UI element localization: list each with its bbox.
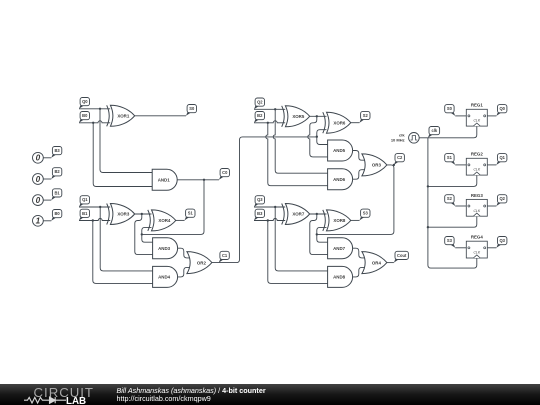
wire S1 to REG2 D pin [455, 164, 466, 166]
svg-text:AND5: AND5 [333, 148, 346, 153]
node flag S1 (sum bit 1) [185, 209, 196, 220]
svg-text:S3: S3 [447, 238, 453, 243]
wire source to B1 flag [43, 199, 51, 201]
svg-text:AND4: AND4 [158, 275, 171, 280]
and gate AND5 [328, 140, 353, 161]
wire XOR5 output down to AND5 bottom input (hop over C1) [308, 116, 328, 157]
wire clk branch to REG2 [428, 175, 477, 186]
wire XOR7 output to XOR8 top input [310, 213, 327, 215]
svg-text:Q3: Q3 [257, 197, 263, 202]
node flag Cout (carry out) [394, 251, 409, 262]
svg-text:clk: clk [431, 128, 437, 133]
junction on B3 wire [267, 219, 269, 221]
digital input source 0 for B3 [33, 152, 44, 163]
svg-text:REG1: REG1 [471, 103, 484, 108]
junction on B2 wire [267, 122, 269, 124]
junction at XOR7 output [316, 213, 318, 215]
svg-text:OR2: OR2 [197, 260, 207, 265]
junction at XOR5 output [316, 115, 318, 117]
wire AND5 output to OR3 top input [353, 151, 366, 161]
svg-text:C1: C1 [222, 253, 228, 258]
wire clk to REG1 clock / down REG1 [428, 126, 477, 138]
svg-text:B0: B0 [82, 113, 88, 118]
svg-text:REG4: REG4 [471, 235, 484, 240]
wire Q1 to XOR3 top input [79, 206, 110, 208]
and gate AND4 [153, 266, 178, 287]
svg-text:AND8: AND8 [333, 275, 346, 280]
junction at XOR3 output [141, 213, 143, 215]
digital input source 0 for B1 [33, 195, 44, 206]
wire B3 to XOR7 bottom input (hop over Q3 branch) [254, 219, 285, 221]
svg-text:XOR1: XOR1 [117, 114, 130, 119]
wire S2 to REG3 D pin [455, 205, 466, 207]
junction on B1 wire [92, 219, 94, 221]
wire B3 branch down to AND8 bottom input [268, 221, 328, 284]
wire OR2 output (C1) up to bit-2 carry-in [212, 137, 317, 263]
svg-text:B1: B1 [54, 190, 60, 195]
svg-text:B1: B1 [82, 211, 88, 216]
wire Q3 to XOR7 top input [254, 206, 285, 208]
node flag clk [428, 127, 440, 138]
svg-text:10 MHz: 10 MHz [391, 137, 405, 142]
svg-text:Q1: Q1 [499, 155, 505, 160]
svg-text:XOR6: XOR6 [333, 120, 346, 125]
wire OR4 output to Cout [387, 262, 394, 264]
and gate AND1 [152, 169, 177, 190]
wire XOR6 output to S2 [351, 122, 360, 124]
node flag S3 (sum bit 3) [360, 209, 371, 220]
node flag C0 (carry out of bit 0) [219, 169, 230, 180]
svg-text:S2: S2 [363, 113, 369, 118]
svg-text:AND7: AND7 [333, 246, 346, 251]
svg-text:OR4: OR4 [372, 260, 382, 265]
xor gate XOR7 [282, 204, 310, 225]
wire XOR5 output to XOR6 top input [310, 115, 327, 117]
xor gate XOR4 [148, 210, 176, 231]
junction carry-in of bit 3 [316, 233, 318, 235]
wire carry-in down to AND5 top input [317, 137, 328, 145]
node flag S0 (XOR1 output) [186, 105, 197, 116]
wire source to B0 flag [43, 220, 51, 222]
footer caption: author / title [117, 387, 266, 404]
node flag Q1 (Q output of REG2) [496, 154, 507, 165]
wire C0 to bit-1 carry-in junction [142, 180, 204, 235]
node flag C2 (carry out of bit 2) [394, 154, 405, 165]
svg-text:1: 1 [36, 217, 41, 226]
svg-text:Q1: Q1 [82, 197, 88, 202]
wire clk branch to REG3 [428, 216, 477, 227]
and gate AND3 [153, 238, 178, 259]
svg-text:S0: S0 [447, 106, 453, 111]
wire XOR4 output to S1 [176, 219, 185, 221]
wire B1 to XOR3 bottom input (hop over Q1 branch) [79, 219, 110, 221]
wire AND4 output to OR2 bottom input [178, 267, 191, 277]
xor gate XOR5 [282, 106, 310, 127]
wire carry-in down to AND3 top input [142, 234, 153, 242]
junction clk to REG3 [427, 226, 429, 228]
node flag Q0 (XOR1 input) [79, 98, 90, 109]
wire B0 branch down to AND1 bottom input [93, 123, 152, 187]
xor gate XOR8 [323, 210, 351, 231]
node flag S0 (D input of REG1) [445, 105, 456, 116]
and gate AND8 [328, 266, 353, 287]
node flag C1 (carry out of bit 1) [219, 251, 229, 262]
wire B0 to XOR1 bottom input (hop over Q0 branch) [79, 121, 110, 123]
D flip-flop REG4 [466, 235, 487, 258]
node flag B3 (input value) [51, 147, 62, 158]
wire source to B2 flag [43, 178, 51, 180]
svg-text:0: 0 [36, 175, 41, 184]
svg-text:XOR3: XOR3 [117, 212, 130, 217]
svg-text:S1: S1 [188, 211, 194, 216]
svg-text:OR3: OR3 [372, 163, 382, 168]
svg-text:Q3: Q3 [499, 238, 505, 243]
svg-text:CLK: CLK [473, 168, 480, 172]
or gate OR2 [187, 252, 212, 274]
node flag Q1 (XOR3 input) [79, 196, 90, 207]
node flag B0 (input value) [51, 210, 62, 221]
node flag B3 (XOR7 input) [254, 209, 265, 220]
svg-text:S1: S1 [447, 155, 453, 160]
junction on C0 wire [203, 179, 205, 181]
wire S0 to REG1 D pin [455, 115, 466, 117]
svg-text:AND6: AND6 [333, 177, 346, 182]
wire AND1 output to C0 [177, 179, 219, 181]
svg-text:CLK: CLK [473, 209, 480, 213]
wire Q0 to XOR1 top input [79, 108, 110, 110]
svg-text:S2: S2 [447, 196, 453, 201]
wire Q1 branch down to AND4 top input [100, 207, 153, 271]
svg-text:Q0: Q0 [82, 99, 88, 104]
node flag B2 (XOR5 input) [254, 112, 265, 123]
wire Q0 branch down to AND1 top input [100, 109, 152, 173]
wire carry-in down to AND7 top input [317, 234, 328, 242]
resistor symbol in logo [24, 397, 46, 403]
clock source CLK1 (square wave) [409, 133, 420, 144]
svg-text:CLK: CLK [473, 251, 480, 255]
node flag S2 (D input of REG3) [445, 195, 456, 206]
junction clk to REG2 [427, 185, 429, 187]
D flip-flop REG2 [466, 152, 487, 175]
wire AND7 output to OR4 top input [353, 248, 366, 258]
D flip-flop REG3 [466, 193, 487, 216]
svg-text:REG2: REG2 [471, 152, 484, 157]
wire clk vertical distribution [428, 138, 477, 268]
junction carry-in of bit 2 [316, 136, 318, 138]
svg-text:Q2: Q2 [499, 196, 505, 201]
CircuitLab logo [16, 384, 112, 405]
svg-text:B3: B3 [257, 211, 263, 216]
xor gate XOR3 [107, 204, 135, 225]
svg-text:REG3: REG3 [471, 193, 484, 198]
wire XOR1 output to S0 [135, 115, 186, 117]
wire REG1 Q pin to Q0 [487, 115, 496, 117]
svg-text:CLK: CLK [473, 119, 480, 123]
clock source label 'clk 10 MHz' [391, 133, 406, 143]
node flag Q3 (Q output of REG4) [496, 237, 507, 248]
node flag Q0 (Q output of REG1) [496, 105, 507, 116]
node flag Q2 (XOR5 input) [254, 98, 265, 109]
svg-text:AND3: AND3 [158, 246, 171, 251]
node flag B1 (input value) [51, 189, 62, 200]
junction on Q2 wire [274, 108, 276, 110]
wire XOR8 output to S3 [351, 219, 360, 221]
svg-text:B3: B3 [54, 148, 60, 153]
svg-text:LAB: LAB [66, 396, 86, 405]
node flag B2 (input value) [51, 168, 62, 179]
junction on Q0 wire [99, 108, 101, 110]
node flag B1 (XOR3 input) [79, 209, 90, 220]
wire carry-in up to XOR4 bottom input [142, 227, 152, 234]
node flag S2 (sum bit 2) [360, 111, 371, 122]
wire REG2 Q pin to Q1 [487, 164, 496, 166]
svg-text:Cout: Cout [397, 253, 407, 258]
wire carry-in up to XOR6 bottom input [317, 130, 327, 137]
svg-text:XOR5: XOR5 [292, 114, 305, 119]
svg-text:C0: C0 [222, 170, 228, 175]
wire source to B3 flag [43, 157, 51, 159]
wire B2 to XOR5 bottom input (hop over Q2 branch) [254, 121, 285, 123]
wire AND6 output to OR3 bottom input [353, 170, 366, 180]
svg-text:S3: S3 [363, 211, 369, 216]
svg-text:XOR7: XOR7 [292, 212, 305, 217]
wire B2 branch down to AND6 bottom input (hop over C1) [266, 123, 328, 186]
svg-text:B2: B2 [54, 169, 60, 174]
footer bar [0, 384, 540, 405]
wire Q2 to XOR5 top input [254, 108, 285, 110]
junction on Q3 wire [274, 206, 276, 208]
node flag B0 (XOR1 input) [79, 112, 90, 123]
junction on B0 wire [92, 122, 94, 124]
wire REG3 Q pin to Q2 [487, 205, 496, 207]
and gate AND7 [328, 238, 353, 259]
D flip-flop REG1 [466, 103, 487, 126]
wire B1 branch down to AND4 bottom input [93, 221, 153, 284]
digital input source 0 for B2 [33, 174, 44, 185]
wire XOR3 output down to AND3 bottom input [135, 214, 153, 255]
wire carry-in up to XOR8 bottom input [317, 227, 327, 234]
wire S3 to REG4 D pin [455, 247, 466, 249]
node flag S3 (D input of REG4) [445, 237, 456, 248]
node flag S1 (D input of REG2) [445, 154, 456, 165]
svg-text:S0: S0 [189, 106, 195, 111]
wire Q3 branch down to AND8 top input [275, 207, 328, 271]
junction at C2 flag anchor [393, 164, 395, 166]
xor gate XOR6 [323, 112, 351, 133]
node flag Q3 (XOR7 input) [254, 196, 265, 207]
svg-text:B0: B0 [54, 211, 60, 216]
svg-text:XOR8: XOR8 [333, 218, 346, 223]
wire OR3 output (C2) down to bit-3 carry-in [317, 165, 394, 235]
wire XOR7 output down to AND7 bottom input [310, 214, 328, 255]
digital input source 1 for B0 [33, 215, 44, 226]
wire XOR3 output to XOR4 top input [135, 213, 152, 215]
or gate OR4 [362, 252, 387, 274]
junction on Q1 wire [99, 206, 101, 208]
junction carry-in of bit 1 [141, 233, 143, 235]
wire AND3 output to OR2 top input [178, 248, 191, 258]
wire clock source to clk flag [419, 137, 428, 139]
svg-text:XOR4: XOR4 [158, 218, 171, 223]
svg-text:Q0: Q0 [499, 106, 505, 111]
wire AND8 output to OR4 bottom input [353, 267, 366, 277]
svg-text:0: 0 [36, 154, 41, 163]
svg-text:B2: B2 [257, 113, 263, 118]
wire REG4 Q pin to Q3 [487, 247, 496, 249]
svg-text:AND1: AND1 [158, 178, 171, 183]
svg-text:0: 0 [36, 196, 41, 205]
and gate AND6 [328, 169, 353, 190]
wire Q2 branch down to AND6 top input (hop over C1) [273, 109, 328, 173]
node flag Q2 (Q output of REG3) [496, 195, 507, 206]
svg-text:C2: C2 [397, 155, 403, 160]
svg-text:Q2: Q2 [257, 100, 263, 105]
xor gate XOR1 [107, 105, 135, 126]
diode symbol in logo [46, 397, 66, 403]
or gate OR3 [362, 154, 387, 176]
